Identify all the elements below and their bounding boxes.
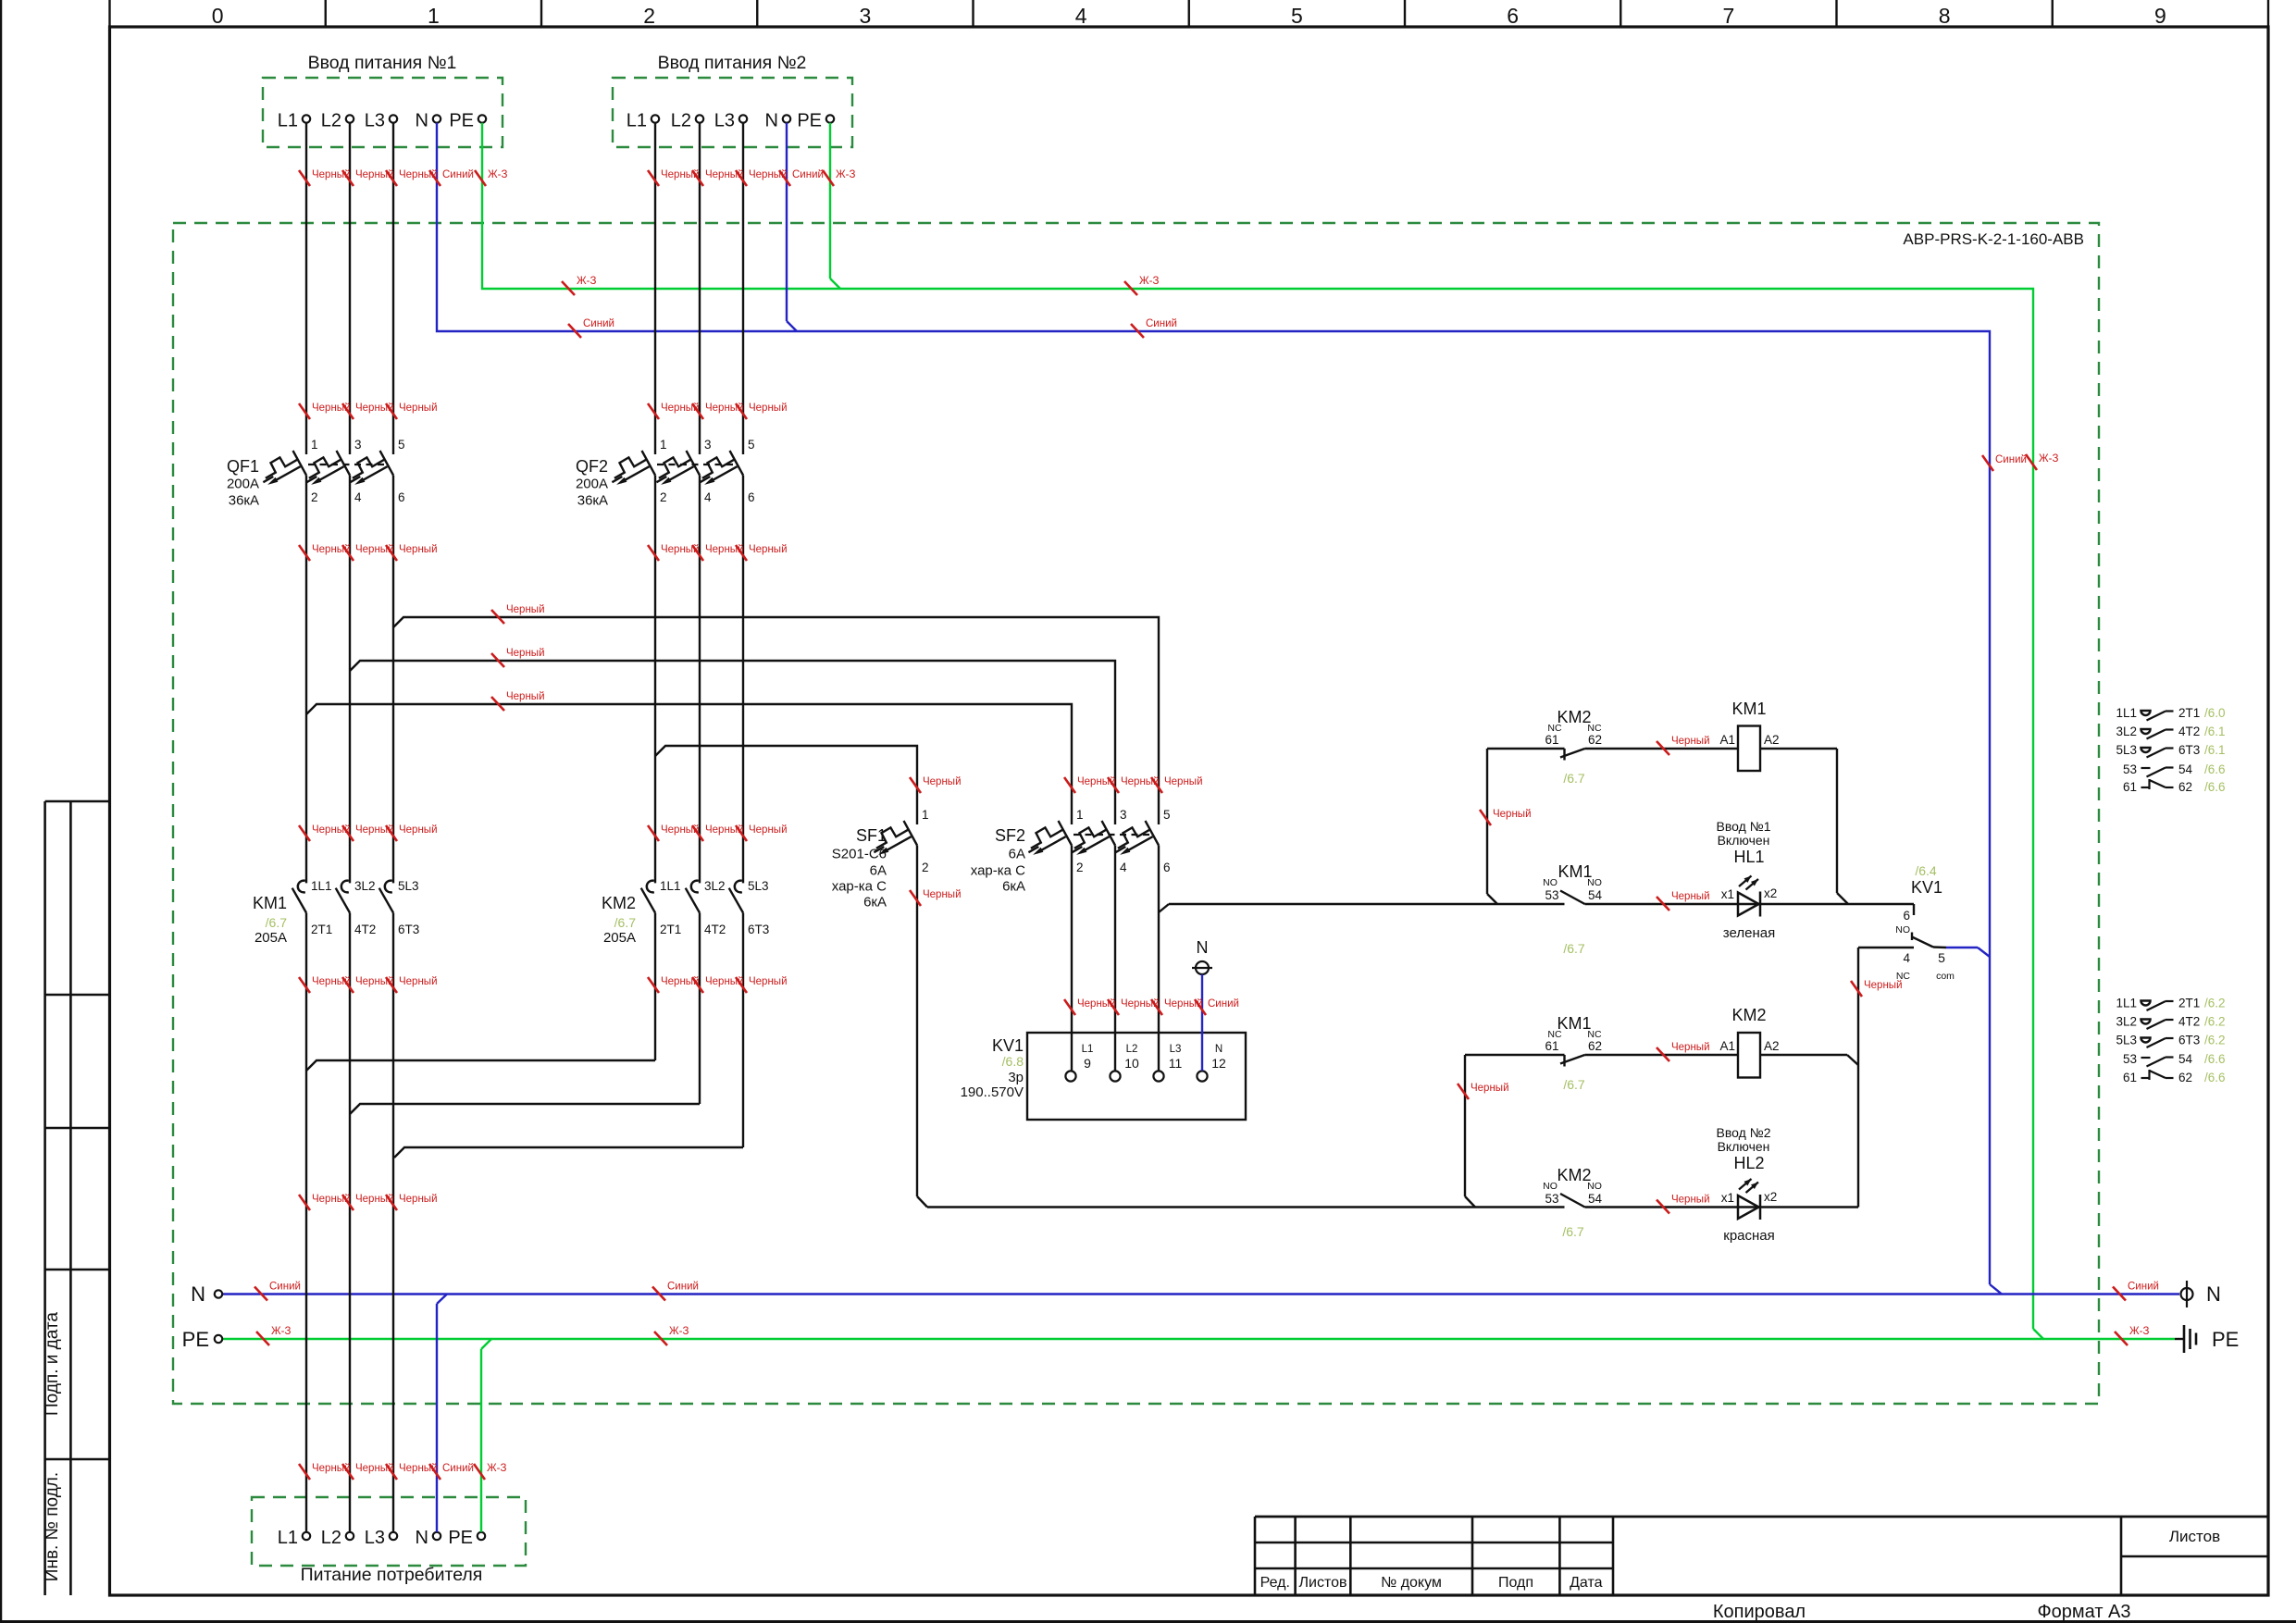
svg-text:HL1: HL1 — [1733, 848, 1764, 866]
svg-text:Черный: Черный — [749, 976, 788, 987]
svg-text:36кА: 36кА — [229, 493, 259, 509]
svg-text:5: 5 — [1938, 950, 1945, 965]
svg-text:2: 2 — [311, 490, 318, 504]
svg-text:/6.2: /6.2 — [2204, 1034, 2226, 1047]
svg-text:/6.7: /6.7 — [1562, 1224, 1584, 1239]
svg-text:Ж-З: Ж-З — [577, 276, 596, 287]
svg-text:Черный: Черный — [1493, 809, 1532, 820]
svg-text:3L2: 3L2 — [704, 879, 726, 893]
svg-text:A2: A2 — [1764, 1039, 1780, 1053]
svg-text:L2: L2 — [1126, 1044, 1138, 1055]
svg-text:PE: PE — [797, 111, 822, 131]
svg-text:№ докум: № докум — [1381, 1575, 1442, 1591]
svg-text:SF1: SF1 — [856, 826, 887, 845]
svg-text:1L1: 1L1 — [660, 879, 681, 893]
svg-text:Синий: Синий — [442, 1463, 474, 1474]
svg-text:54: 54 — [1588, 888, 1603, 902]
svg-text:L2: L2 — [671, 111, 691, 131]
svg-text:/6.1: /6.1 — [2204, 743, 2226, 757]
svg-text:9: 9 — [2154, 4, 2166, 28]
svg-text:61: 61 — [2123, 780, 2137, 794]
svg-text:Ред.: Ред. — [1260, 1575, 1290, 1591]
svg-text:6: 6 — [398, 490, 405, 504]
svg-text:Ввод питания №1: Ввод питания №1 — [308, 53, 457, 73]
svg-text:5: 5 — [1163, 808, 1171, 822]
svg-text:6А: 6А — [1009, 847, 1025, 862]
svg-text:PE: PE — [449, 111, 474, 131]
svg-text:Черный: Черный — [399, 824, 438, 836]
svg-text:L3: L3 — [365, 1528, 385, 1548]
svg-text:L3: L3 — [1170, 1044, 1182, 1055]
svg-text:Ж-З: Ж-З — [1139, 276, 1159, 287]
svg-text:11: 11 — [1169, 1056, 1183, 1071]
svg-text:1: 1 — [660, 438, 667, 452]
svg-text:4: 4 — [704, 490, 712, 504]
svg-text:N: N — [765, 111, 778, 131]
svg-text:1: 1 — [922, 808, 929, 822]
svg-text:Черный: Черный — [399, 403, 438, 414]
svg-text:зеленая: зеленая — [1723, 925, 1775, 941]
svg-text:L2: L2 — [321, 1528, 341, 1548]
svg-text:x1: x1 — [1721, 1191, 1734, 1205]
svg-text:Черный: Черный — [749, 403, 788, 414]
svg-text:N: N — [2206, 1282, 2221, 1306]
svg-text:3: 3 — [859, 4, 871, 28]
svg-text:S201-С6: S201-С6 — [832, 847, 887, 862]
svg-text:2T1: 2T1 — [2178, 706, 2200, 720]
svg-text:/6.0: /6.0 — [2204, 706, 2226, 720]
svg-text:3L2: 3L2 — [2116, 1015, 2137, 1029]
svg-text:3L2: 3L2 — [354, 879, 376, 893]
svg-text:Синий: Синий — [1995, 454, 2027, 465]
svg-text:/6.6: /6.6 — [2204, 1071, 2226, 1084]
svg-text:L3: L3 — [714, 111, 735, 131]
svg-text:Синий: Синий — [792, 169, 824, 180]
svg-text:L3: L3 — [365, 111, 385, 131]
svg-text:Черный: Черный — [1671, 736, 1710, 747]
svg-text:Копировал: Копировал — [1713, 1602, 1806, 1622]
svg-text:Ввод №2: Ввод №2 — [1717, 1125, 1771, 1140]
svg-text:KM1: KM1 — [1557, 1014, 1591, 1033]
svg-text:5L3: 5L3 — [2116, 1034, 2137, 1047]
svg-text:2T1: 2T1 — [311, 923, 332, 936]
svg-text:53: 53 — [1545, 1192, 1558, 1206]
svg-text:/6.4: /6.4 — [1915, 863, 1937, 878]
svg-text:x1: x1 — [1721, 887, 1734, 901]
svg-text:6T3: 6T3 — [2178, 743, 2200, 757]
svg-text:N: N — [1215, 1044, 1222, 1055]
svg-text:2: 2 — [660, 490, 667, 504]
svg-text:Инв. № подл.: Инв. № подл. — [43, 1472, 62, 1581]
svg-text:Синий: Синий — [269, 1282, 301, 1293]
svg-text:4T2: 4T2 — [2178, 1015, 2200, 1029]
svg-text:Черный: Черный — [506, 691, 545, 702]
svg-text:L1: L1 — [627, 111, 647, 131]
svg-text:Черный: Черный — [923, 889, 962, 900]
svg-text:Черный: Черный — [1164, 776, 1203, 787]
svg-text:/6.8: /6.8 — [1002, 1054, 1024, 1069]
svg-text:6А: 6А — [870, 863, 887, 879]
svg-text:200А: 200А — [576, 477, 608, 492]
svg-text:Черный: Черный — [749, 824, 788, 836]
svg-text:KM2: KM2 — [1731, 1006, 1766, 1024]
svg-text:/6.6: /6.6 — [2204, 780, 2226, 794]
svg-text:10: 10 — [1124, 1056, 1139, 1071]
svg-text:Черный: Черный — [399, 544, 438, 555]
svg-text:2: 2 — [643, 4, 655, 28]
svg-text:4T2: 4T2 — [2178, 725, 2200, 738]
svg-text:/6.7: /6.7 — [1563, 1077, 1585, 1092]
svg-text:Черный: Черный — [506, 604, 545, 615]
svg-text:A1: A1 — [1719, 733, 1735, 747]
svg-text:HL2: HL2 — [1733, 1154, 1764, 1172]
svg-text:8: 8 — [1939, 4, 1951, 28]
svg-text:Ж-З: Ж-З — [2039, 453, 2058, 465]
svg-text:NO: NO — [1587, 1181, 1602, 1192]
svg-text:x2: x2 — [1764, 1190, 1777, 1204]
svg-text:Черный: Черный — [1671, 1042, 1710, 1053]
svg-text:Черный: Черный — [749, 544, 788, 555]
svg-text:1L1: 1L1 — [2116, 706, 2137, 720]
svg-text:5: 5 — [398, 438, 405, 452]
svg-text:/6.1: /6.1 — [2204, 725, 2226, 738]
svg-text:6T3: 6T3 — [398, 923, 419, 936]
svg-text:/6.7: /6.7 — [1563, 941, 1585, 956]
svg-text:PE: PE — [182, 1328, 209, 1351]
svg-text:Синий: Синий — [583, 318, 614, 329]
svg-text:3L2: 3L2 — [2116, 725, 2137, 738]
svg-text:/6.7: /6.7 — [1563, 771, 1585, 786]
svg-text:KM1: KM1 — [1731, 700, 1766, 718]
svg-text:Черный: Черный — [1671, 1195, 1710, 1206]
svg-text:6: 6 — [1903, 909, 1910, 923]
svg-text:6: 6 — [1507, 4, 1519, 28]
svg-text:/6.2: /6.2 — [2204, 997, 2226, 1010]
svg-text:Ж-З: Ж-З — [487, 1463, 506, 1474]
svg-text:3: 3 — [354, 438, 362, 452]
svg-text:PE: PE — [2212, 1328, 2239, 1351]
svg-text:6T3: 6T3 — [2178, 1034, 2200, 1047]
svg-text:Ж-З: Ж-З — [271, 1326, 291, 1337]
svg-text:/6.7: /6.7 — [266, 915, 288, 930]
svg-text:Дата: Дата — [1570, 1575, 1603, 1591]
svg-text:5L3: 5L3 — [2116, 743, 2137, 757]
svg-text:Листов: Листов — [1299, 1575, 1347, 1591]
svg-text:53: 53 — [2123, 1052, 2137, 1066]
svg-text:Подп. и дата: Подп. и дата — [43, 1312, 62, 1416]
svg-text:4T2: 4T2 — [354, 923, 376, 936]
svg-text:хар-ка С: хар-ка С — [832, 879, 887, 895]
svg-text:5L3: 5L3 — [398, 879, 419, 893]
svg-text:/6.2: /6.2 — [2204, 1015, 2226, 1029]
svg-text:KM1: KM1 — [253, 894, 287, 912]
svg-text:1: 1 — [1076, 808, 1084, 822]
svg-text:61: 61 — [1545, 1039, 1558, 1053]
svg-text:хар-ка С: хар-ка С — [971, 863, 1025, 879]
svg-text:1: 1 — [428, 4, 440, 28]
svg-text:53: 53 — [1545, 888, 1558, 902]
svg-text:36кА: 36кА — [577, 493, 608, 509]
svg-text:9: 9 — [1084, 1056, 1091, 1071]
svg-text:ABP-PRS-K-2-1-160-ABB: ABP-PRS-K-2-1-160-ABB — [1903, 230, 2084, 248]
svg-text:Формат А3: Формат А3 — [2037, 1602, 2130, 1622]
svg-text:5L3: 5L3 — [748, 879, 769, 893]
svg-text:6кА: 6кА — [1002, 879, 1025, 895]
svg-text:Ввод №1: Ввод №1 — [1717, 819, 1771, 834]
svg-text:6кА: 6кА — [863, 895, 887, 911]
svg-text:1L1: 1L1 — [311, 879, 332, 893]
svg-text:/6.7: /6.7 — [614, 915, 637, 930]
svg-text:Черный: Черный — [1671, 891, 1710, 902]
svg-text:2T1: 2T1 — [660, 923, 681, 936]
svg-text:Синий: Синий — [1146, 318, 1177, 329]
svg-text:12: 12 — [1211, 1056, 1226, 1071]
svg-text:NO: NO — [1543, 1181, 1558, 1192]
svg-text:205А: 205А — [254, 930, 287, 946]
svg-text:6T3: 6T3 — [748, 923, 769, 936]
svg-text:N: N — [416, 1528, 428, 1548]
svg-text:Листов: Листов — [2169, 1528, 2220, 1545]
svg-text:Черный: Черный — [399, 976, 438, 987]
svg-text:N: N — [1197, 938, 1209, 957]
svg-text:200А: 200А — [227, 477, 259, 492]
svg-text:61: 61 — [1545, 733, 1558, 747]
svg-text:Черный: Черный — [1471, 1083, 1509, 1094]
svg-text:KV1: KV1 — [1911, 878, 1942, 897]
svg-text:KM2: KM2 — [1557, 708, 1591, 726]
svg-text:54: 54 — [2178, 762, 2193, 776]
svg-text:Синий: Синий — [1208, 998, 1239, 1010]
svg-text:205А: 205А — [603, 930, 636, 946]
svg-text:Ввод питания №2: Ввод питания №2 — [658, 53, 807, 73]
svg-text:Подп: Подп — [1498, 1575, 1533, 1591]
svg-text:3: 3 — [704, 438, 712, 452]
svg-text:4: 4 — [354, 490, 362, 504]
svg-text:1L1: 1L1 — [2116, 997, 2137, 1010]
svg-text:NO: NO — [1543, 877, 1558, 888]
svg-text:53: 53 — [2123, 762, 2137, 776]
svg-text:7: 7 — [1722, 4, 1734, 28]
svg-text:L2: L2 — [321, 111, 341, 131]
svg-text:5: 5 — [1291, 4, 1303, 28]
svg-text:N: N — [416, 111, 428, 131]
svg-text:KM2: KM2 — [1557, 1166, 1591, 1184]
svg-text:красная: красная — [1723, 1228, 1775, 1244]
svg-text:Ж-З: Ж-З — [488, 169, 507, 180]
svg-text:Черный: Черный — [923, 776, 962, 787]
svg-text:NO: NO — [1895, 924, 1910, 935]
svg-text:1: 1 — [311, 438, 318, 452]
svg-text:N: N — [191, 1282, 205, 1306]
svg-text:x2: x2 — [1764, 886, 1777, 900]
svg-text:62: 62 — [1588, 1039, 1602, 1053]
svg-text:L1: L1 — [278, 1528, 298, 1548]
svg-text:2: 2 — [922, 861, 929, 874]
svg-text:54: 54 — [1588, 1192, 1603, 1206]
svg-text:A2: A2 — [1764, 733, 1780, 747]
svg-text:Ж-З: Ж-З — [836, 169, 855, 180]
svg-text:62: 62 — [2178, 1071, 2192, 1084]
svg-text:Включен: Включен — [1718, 1139, 1770, 1154]
svg-text:/6.6: /6.6 — [2204, 1052, 2226, 1066]
svg-text:Синий: Синий — [2128, 1282, 2159, 1293]
svg-text:Синий: Синий — [667, 1282, 699, 1293]
svg-text:A1: A1 — [1719, 1039, 1735, 1053]
svg-text:Синий: Синий — [442, 169, 474, 180]
svg-text:Черный: Черный — [506, 648, 545, 659]
svg-text:3р: 3р — [1008, 1070, 1024, 1085]
svg-text:L1: L1 — [1082, 1044, 1094, 1055]
svg-text:com: com — [1936, 971, 1955, 982]
svg-text:Ж-З: Ж-З — [2129, 1326, 2149, 1337]
svg-text:4T2: 4T2 — [704, 923, 726, 936]
svg-text:54: 54 — [2178, 1052, 2193, 1066]
svg-text:62: 62 — [1588, 733, 1602, 747]
svg-text:QF1: QF1 — [227, 457, 259, 476]
svg-text:Черный: Черный — [399, 1194, 438, 1205]
svg-text:61: 61 — [2123, 1071, 2137, 1084]
svg-text:Питание потребителя: Питание потребителя — [301, 1565, 483, 1585]
svg-text:KV1: KV1 — [992, 1036, 1024, 1055]
svg-text:5: 5 — [748, 438, 755, 452]
svg-text:4: 4 — [1903, 951, 1910, 965]
svg-text:Черный: Черный — [1864, 980, 1903, 991]
svg-text:3: 3 — [1120, 808, 1127, 822]
svg-text:0: 0 — [212, 4, 224, 28]
svg-text:KM2: KM2 — [602, 894, 636, 912]
svg-text:4: 4 — [1120, 861, 1127, 874]
svg-text:Включен: Включен — [1718, 833, 1770, 848]
svg-text:6: 6 — [748, 490, 755, 504]
svg-text:Ж-З: Ж-З — [669, 1326, 689, 1337]
svg-text:62: 62 — [2178, 780, 2192, 794]
svg-text:NO: NO — [1587, 877, 1602, 888]
svg-text:PE: PE — [448, 1528, 473, 1548]
svg-text:2: 2 — [1076, 861, 1084, 874]
svg-text:SF2: SF2 — [995, 826, 1025, 845]
svg-text:/6.6: /6.6 — [2204, 762, 2226, 776]
svg-text:L1: L1 — [278, 111, 298, 131]
svg-text:6: 6 — [1163, 861, 1171, 874]
svg-text:QF2: QF2 — [576, 457, 608, 476]
svg-text:2T1: 2T1 — [2178, 997, 2200, 1010]
svg-text:4: 4 — [1075, 4, 1087, 28]
svg-text:190..570V: 190..570V — [961, 1084, 1024, 1100]
